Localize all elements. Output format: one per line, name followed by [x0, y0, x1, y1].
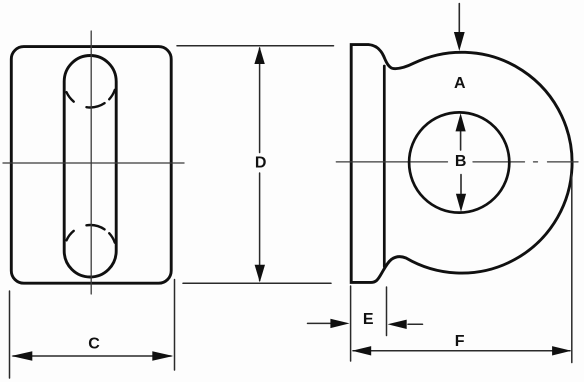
- dimension A leader arrow shaft: [458, 4, 460, 33]
- dimension F right arrowhead: [552, 346, 571, 355]
- svg-text:C: C: [88, 336, 100, 353]
- dimension C right arrowhead: [152, 351, 173, 361]
- dimension D down arrowhead: [255, 265, 265, 282]
- svg-text:D: D: [255, 155, 267, 172]
- eye hole inner circle B: [409, 112, 509, 212]
- dimension D up arrowhead: [254, 47, 264, 64]
- dimension B down arrowhead: [456, 194, 466, 212]
- front view base plate outline: [11, 47, 171, 284]
- plate right face edge line: [383, 66, 386, 267]
- horizontal centerline side view (dash-dot): [336, 161, 578, 163]
- dimension C left arrowhead: [11, 351, 32, 361]
- dimension C right extension line: [174, 280, 176, 371]
- side view outline (plate and eye boss): [351, 45, 572, 283]
- dimension B up arrowhead: [456, 113, 466, 131]
- dimension E left arrow shaft: [308, 322, 333, 324]
- svg-text:B: B: [455, 153, 467, 170]
- dimension D line lower segment: [259, 173, 261, 281]
- dimension E right arrow shaft: [408, 323, 423, 325]
- horizontal centerline front view: [3, 162, 184, 164]
- dimension D bottom extension line: [183, 282, 331, 284]
- hidden pin circle top (dashed): [64, 82, 116, 108]
- hidden pin circle bottom (dashed): [64, 225, 116, 251]
- dimension E left arrowhead: [330, 319, 349, 328]
- dimension A arrowhead: [454, 32, 465, 51]
- dimension B down arrow shaft: [460, 175, 462, 194]
- dimension E right arrowhead: [388, 320, 407, 329]
- dimension C left extension line: [9, 291, 11, 378]
- svg-text:E: E: [363, 311, 374, 328]
- dimension F left arrowhead: [352, 346, 371, 355]
- slot (obround hole): [64, 56, 116, 278]
- svg-text:F: F: [455, 333, 465, 350]
- dimension F right extension line: [571, 174, 573, 363]
- dimension B up arrow shaft: [460, 131, 462, 150]
- dimension F line: [353, 350, 570, 352]
- dimension D line upper segment: [259, 48, 261, 153]
- dimension C line: [13, 355, 171, 357]
- dimension E left extension line: [350, 286, 352, 361]
- svg-text:A: A: [454, 75, 466, 92]
- vertical centerline front view: [90, 31, 92, 294]
- dimension D top extension line: [177, 45, 334, 47]
- dimension E right extension line: [386, 287, 388, 336]
